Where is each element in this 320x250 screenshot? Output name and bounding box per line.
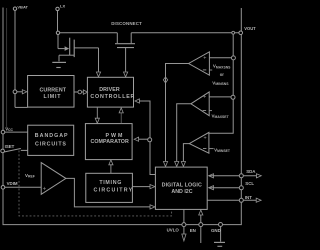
svg-text:DISCONNECT: DISCONNECT xyxy=(111,21,142,26)
svg-text:LIMIT: LIMIT xyxy=(43,94,61,100)
svg-text:INT: INT xyxy=(245,195,252,200)
svg-text:VBAT: VBAT xyxy=(17,5,28,10)
svg-text:VCC: VCC xyxy=(5,126,13,132)
svg-text:COMPARATOR: COMPARATOR xyxy=(90,139,129,145)
svg-text:BANDGAP: BANDGAP xyxy=(35,133,69,139)
svg-text:VREF: VREF xyxy=(25,173,35,179)
svg-text:VOUT: VOUT xyxy=(244,26,256,31)
svg-text:VDIM: VDIM xyxy=(7,181,18,186)
svg-text:DRIVER: DRIVER xyxy=(99,87,120,93)
svg-text:ISET: ISET xyxy=(5,144,15,149)
svg-text:DIGITAL LOGIC: DIGITAL LOGIC xyxy=(162,183,202,189)
svg-text:or: or xyxy=(220,72,225,77)
svg-text:+: + xyxy=(203,55,206,61)
svg-text:AND I2C: AND I2C xyxy=(171,189,192,195)
svg-text:SCL: SCL xyxy=(245,181,254,186)
svg-text:SDA: SDA xyxy=(246,169,256,174)
svg-text:VMINSNS: VMINSNS xyxy=(212,80,229,86)
svg-text:+: + xyxy=(203,94,206,100)
svg-text:LX: LX xyxy=(60,3,65,8)
svg-text:CIRCUITS: CIRCUITS xyxy=(35,141,67,147)
svg-text:VMAXSET: VMAXSET xyxy=(212,113,230,119)
svg-text:EN: EN xyxy=(190,228,196,233)
svg-text:+: + xyxy=(204,135,207,141)
svg-text:UVLO: UVLO xyxy=(167,228,180,233)
svg-text:CONTROLLER: CONTROLLER xyxy=(90,94,135,100)
svg-text:GND: GND xyxy=(211,228,221,233)
svg-text:VMAXSNS: VMAXSNS xyxy=(213,64,231,70)
svg-text:+: + xyxy=(43,187,47,193)
svg-text:VMINSET: VMINSET xyxy=(214,147,231,153)
svg-text:TIMING: TIMING xyxy=(99,180,122,186)
svg-text:CURRENT: CURRENT xyxy=(39,87,66,93)
svg-text:CIRCUITRY: CIRCUITRY xyxy=(94,188,134,194)
